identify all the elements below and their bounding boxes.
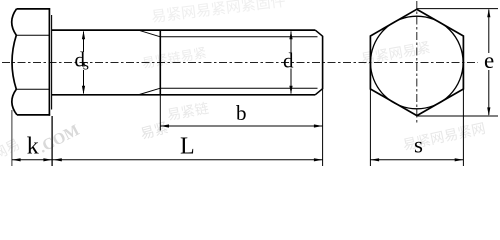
chamfer circle (371, 16, 464, 109)
L arrow right (314, 158, 323, 161)
svg-text:s: s (83, 57, 89, 74)
dimension d line lower (290, 69, 292, 94)
head top edge (17, 8, 51, 10)
centerline vertical (hex view) (416, 1, 418, 125)
b arrow left (160, 124, 169, 127)
watermark shank area row2 (166, 101, 210, 124)
svg-text:e: e (484, 48, 494, 73)
head left profile (chamfer arcs) (12, 9, 17, 115)
b extension left (runout extended) (159, 95, 161, 131)
b/L extension right (tip extended) (322, 89, 324, 166)
ds arrow up (82, 31, 85, 40)
head face boundary lower (16, 88, 49, 90)
dimension e line lower (488, 70, 490, 115)
L arrow left (53, 158, 62, 161)
s extension right (462, 89, 464, 166)
thread runout vertical (159, 30, 161, 95)
dimension d line upper (290, 32, 292, 53)
k extension left (11, 110, 13, 166)
b arrow right (314, 124, 323, 127)
centerline horizontal (axis) (2, 62, 478, 64)
svg-text:k: k (27, 134, 39, 160)
svg-text:L: L (180, 134, 195, 160)
thread runout slant top (139, 30, 160, 37)
k arrow right (43, 158, 52, 161)
head right edge (bearing face) (48, 8, 50, 116)
svg-text:s: s (414, 133, 423, 158)
e arrow up (487, 9, 490, 18)
e extension top (417, 8, 498, 10)
dimension ds line lower (83, 70, 85, 94)
dimension L line (52, 159, 323, 161)
watermark bottom right (402, 121, 487, 154)
washer face line (51, 15, 53, 110)
watermark .COM bottom-left (36, 120, 170, 156)
ds arrow down (82, 86, 85, 95)
dimension s line (370, 159, 463, 161)
e arrow down (487, 107, 490, 116)
watermark shank area row1 (141, 45, 208, 71)
k arrow left (12, 158, 21, 161)
thread minor top line (160, 36, 317, 38)
s arrow right (455, 158, 464, 161)
shank major bottom line (52, 94, 316, 96)
svg-text:d: d (283, 49, 294, 73)
svg-text:b: b (236, 101, 247, 125)
tip end face (322, 36, 324, 89)
head bottom edge (17, 114, 50, 116)
d arrow up (289, 31, 292, 40)
s arrow left (370, 158, 379, 161)
d arrow down (289, 86, 292, 95)
e extension bottom (417, 115, 498, 117)
thread minor bottom line (160, 87, 317, 89)
dimension ds line upper (83, 32, 85, 53)
dimension b line (160, 125, 322, 127)
watermark top band (150, 0, 286, 26)
k/L shared extension below head (51, 116, 53, 166)
dimension k line (12, 159, 52, 161)
head face boundary upper (16, 34, 49, 36)
dimension e line upper (488, 10, 490, 54)
tip chamfer slant top (315, 30, 322, 36)
hexagon head end view (370, 9, 463, 115)
watermark chars left edge (0, 137, 23, 163)
s extension left (369, 89, 371, 166)
watermark hexagon area (360, 40, 432, 68)
thread runout slant bottom (139, 88, 160, 94)
shank major top line (52, 29, 316, 31)
tip chamfer slant bottom (315, 89, 322, 95)
